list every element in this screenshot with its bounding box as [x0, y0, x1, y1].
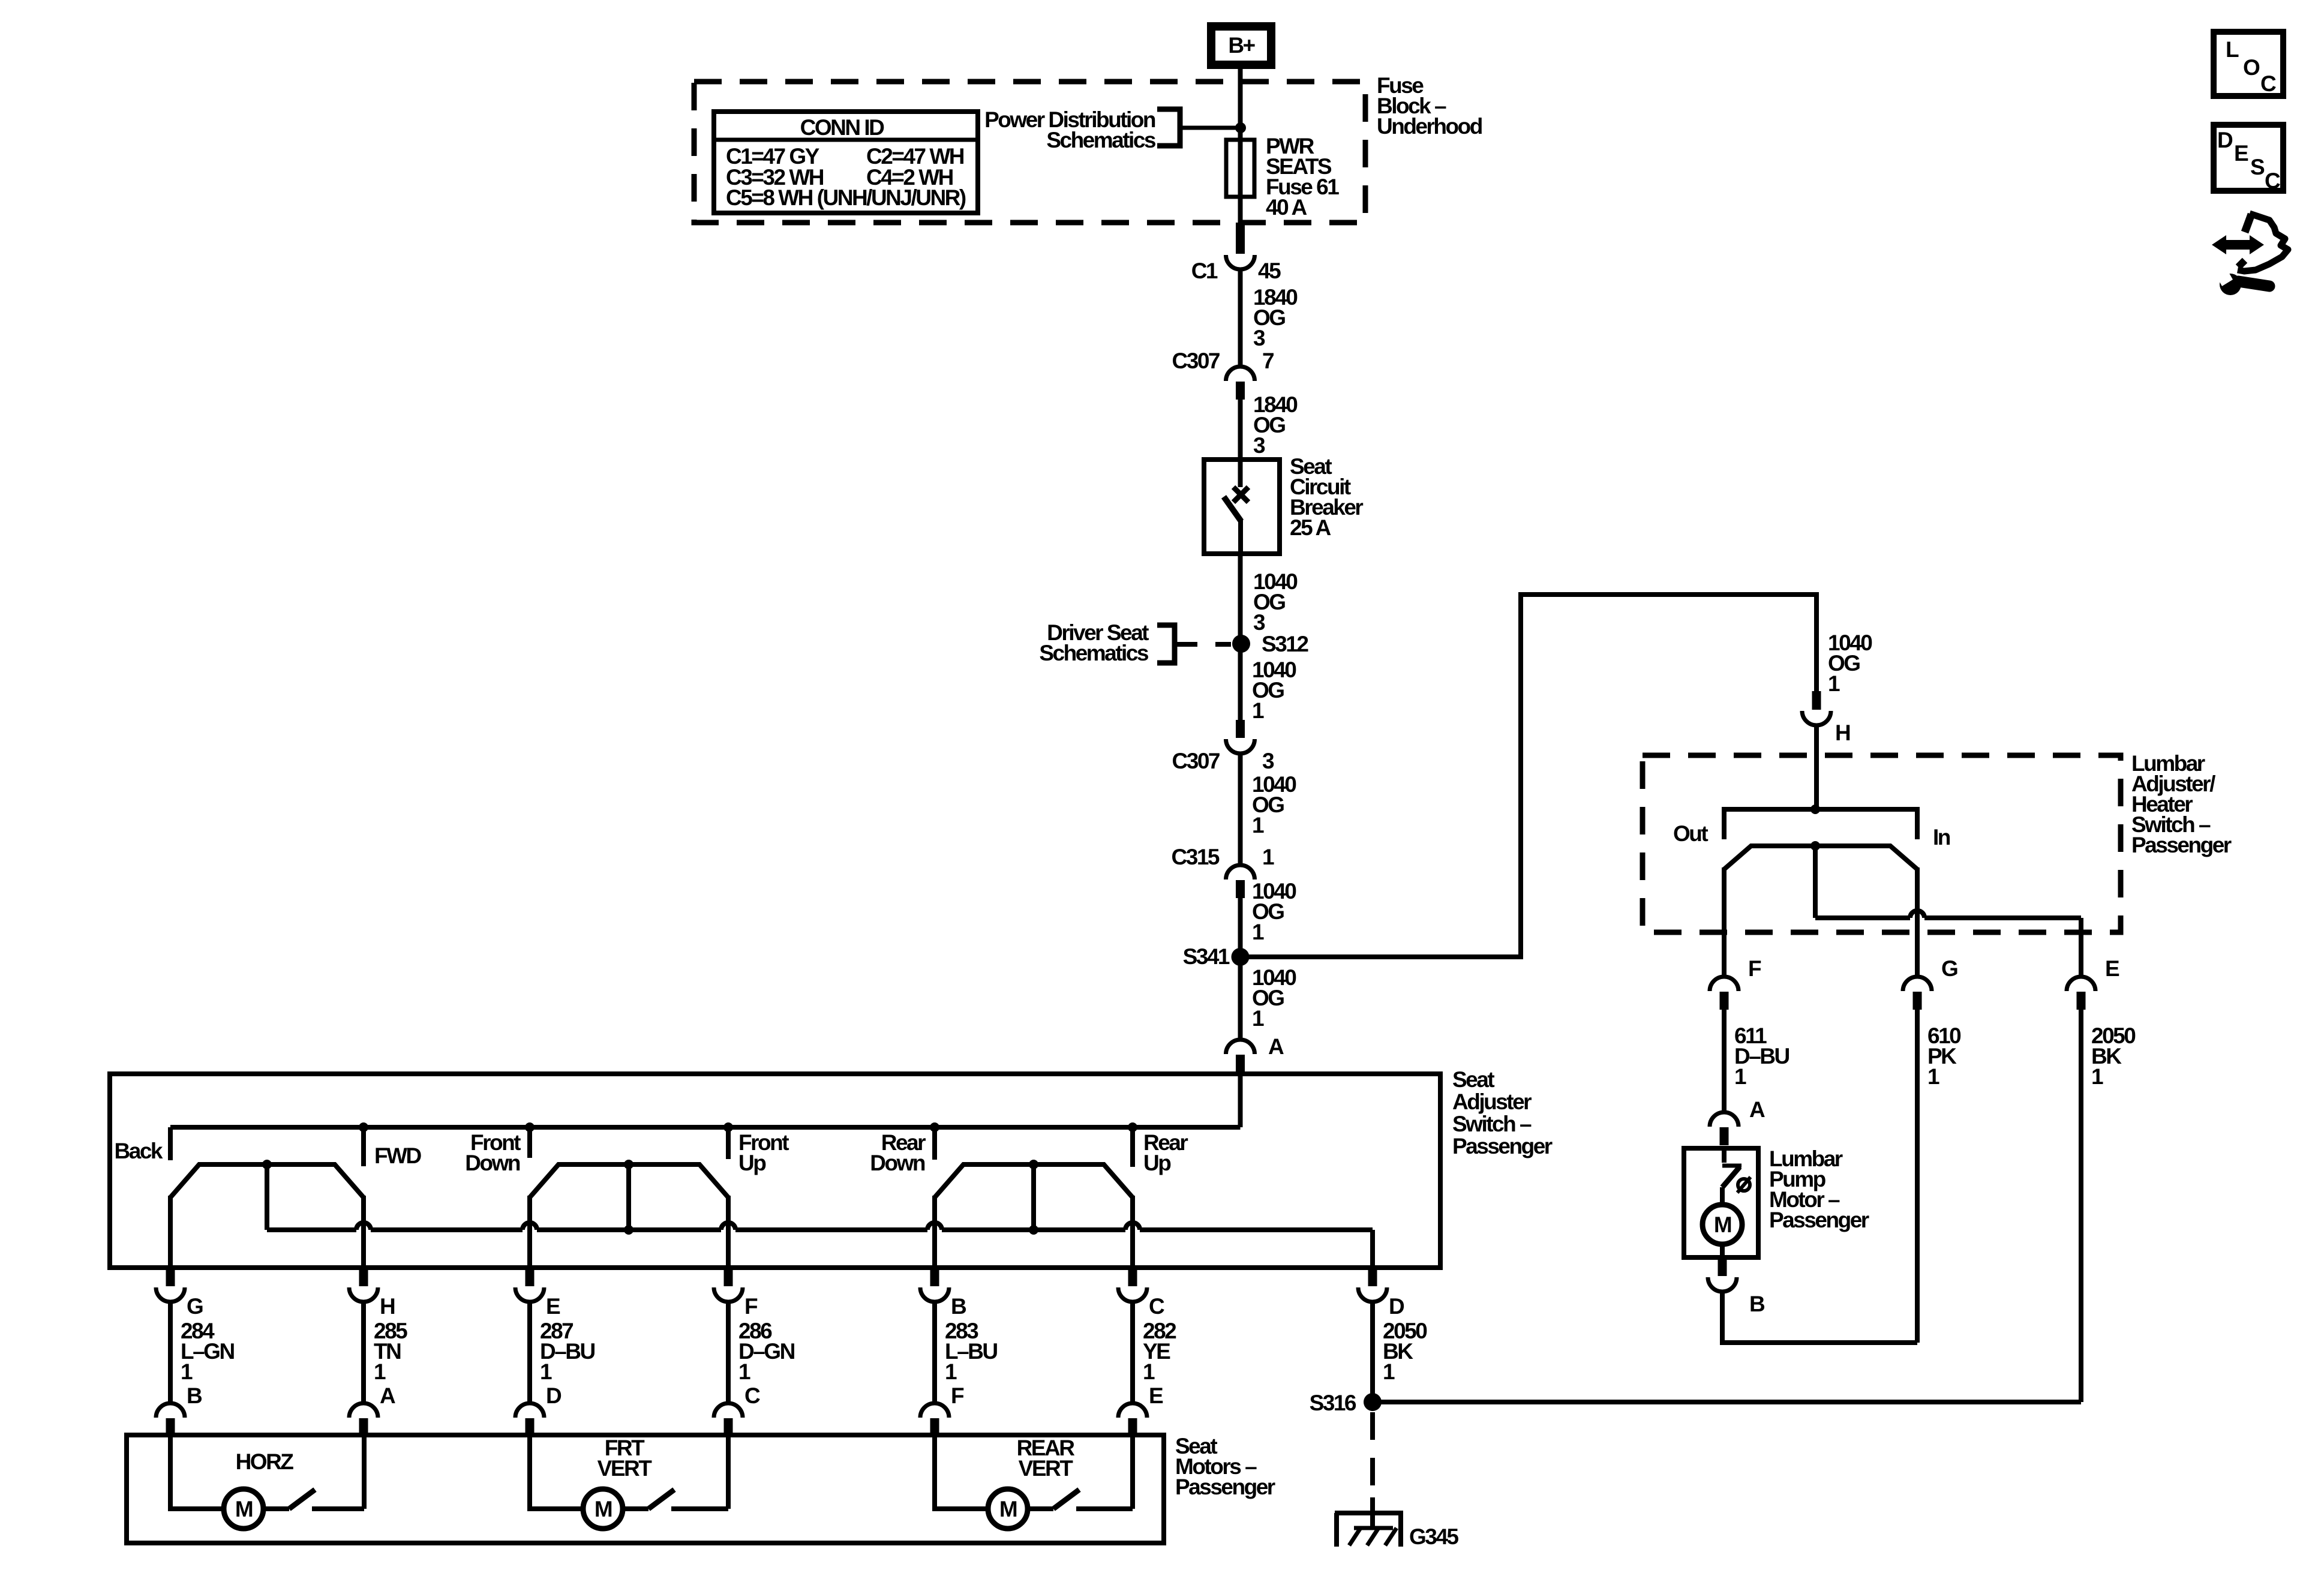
- splice S341: [1232, 948, 1250, 966]
- dashed lead to S312: [1177, 642, 1231, 647]
- connector pin B into seat motors: [156, 1403, 185, 1418]
- adjust icon seat outline: [2245, 214, 2251, 232]
- svg-text:C307: C307: [1172, 749, 1220, 773]
- bridge 2 left leg wire: [527, 1196, 532, 1268]
- svg-text:Up: Up: [738, 1151, 766, 1175]
- svg-text:Passenger: Passenger: [1452, 1134, 1553, 1158]
- terminal Front Up: [723, 1122, 733, 1132]
- svg-text:M: M: [594, 1497, 612, 1521]
- svg-text:F: F: [951, 1383, 964, 1408]
- svg-text:25 A: 25 A: [1290, 515, 1331, 540]
- connector C315 pin 1: [1226, 865, 1255, 879]
- terminal Front Down: [525, 1122, 535, 1132]
- wire 286 D–GN: [726, 1301, 731, 1404]
- svg-text:C1: C1: [1191, 259, 1218, 283]
- svg-text:3: 3: [1253, 610, 1265, 635]
- power feed B+ terminal: [1211, 26, 1271, 65]
- fuse block - underhood dashed box: [694, 82, 1365, 223]
- svg-text:Out: Out: [1673, 821, 1708, 846]
- svg-text:B: B: [951, 1294, 966, 1319]
- connector C307 pin 3: [1236, 720, 1245, 738]
- svg-text:D: D: [546, 1383, 562, 1408]
- svg-text:1: 1: [1252, 920, 1264, 944]
- lumbar adjuster/heater switch dashed box: [1643, 755, 2121, 932]
- svg-text:Down: Down: [870, 1151, 925, 1175]
- svg-text:G345: G345: [1409, 1524, 1458, 1549]
- lumbar tap wire to E: [1815, 915, 1910, 920]
- svg-text:M: M: [1714, 1212, 1731, 1237]
- lumbar feed node: [1810, 804, 1820, 814]
- wire 282 YE: [1130, 1301, 1135, 1404]
- connector H into lumbar switch: [1812, 691, 1821, 710]
- switch common bus to D: [267, 1227, 356, 1232]
- motor 3 switch: [1028, 1506, 1053, 1511]
- node junction at fuse top: [1235, 122, 1246, 133]
- svg-text:D: D: [2217, 128, 2233, 152]
- switch contact bridge 3: [935, 1164, 1133, 1197]
- svg-text:3: 3: [1262, 749, 1274, 773]
- connector E below lumbar switch: [2067, 977, 2095, 991]
- pump motor M: [1720, 1187, 1725, 1205]
- svg-text:B: B: [187, 1383, 202, 1408]
- motor 3 right feed: [1130, 1435, 1135, 1509]
- motor 1 switch: [263, 1506, 289, 1511]
- svg-text:C: C: [744, 1383, 760, 1408]
- svg-text:B: B: [1749, 1292, 1765, 1316]
- motor 2 left feed: [530, 1435, 583, 1509]
- lumbar pump motor - passenger box: [1684, 1148, 1758, 1257]
- svg-text:1: 1: [1828, 671, 1840, 696]
- wire S341 to A: [1238, 957, 1243, 1040]
- svg-text:1: 1: [1734, 1064, 1746, 1089]
- DESC icon box: [2214, 125, 2283, 191]
- adjust icon double arrow: [2212, 235, 2264, 254]
- bridge 1 left leg wire: [168, 1196, 173, 1268]
- svg-text:VERT: VERT: [1019, 1456, 1074, 1481]
- splice S312: [1232, 635, 1250, 653]
- terminal FWD: [359, 1122, 368, 1132]
- connector F below lumbar switch: [1710, 977, 1739, 991]
- lumbar In leg to G: [1915, 867, 1920, 978]
- svg-text:B+: B+: [1228, 33, 1255, 58]
- svg-text:O: O: [2243, 55, 2260, 80]
- svg-text:In: In: [1933, 825, 1950, 849]
- svg-text:A: A: [1268, 1034, 1284, 1059]
- svg-text:Up: Up: [1143, 1151, 1171, 1175]
- pump thermal switch: [1722, 1148, 1727, 1163]
- svg-text:L: L: [2226, 37, 2239, 62]
- wire 285 TN: [361, 1301, 366, 1404]
- svg-text:1: 1: [374, 1359, 386, 1384]
- connector pin B below switch: [930, 1268, 939, 1286]
- wire 2050 BK to S316: [1370, 1301, 1375, 1402]
- svg-text:CONN ID: CONN ID: [800, 115, 885, 140]
- bridge 3 center tap: [1029, 1160, 1038, 1169]
- connector C307 pin 7: [1226, 367, 1255, 381]
- wire 284 L–GN: [168, 1301, 173, 1404]
- switch contact bridge 2: [530, 1164, 728, 1197]
- svg-text:1: 1: [540, 1359, 552, 1384]
- svg-text:E: E: [1149, 1383, 1163, 1408]
- ground wire S316 to E leg: [1373, 1400, 2081, 1404]
- connector A into seat adjuster switch: [1226, 1040, 1255, 1054]
- svg-text:Down: Down: [465, 1151, 520, 1175]
- svg-text:H: H: [1835, 721, 1850, 745]
- breaker contact x-mark: [1233, 487, 1248, 502]
- svg-text:S341: S341: [1183, 944, 1230, 969]
- terminal Rear Down: [930, 1122, 939, 1132]
- svg-text:1: 1: [1383, 1359, 1395, 1384]
- wire junction into fuse: [1238, 65, 1243, 225]
- switch feed rail: [170, 1125, 1241, 1130]
- reference bracket: [1157, 625, 1175, 663]
- connector A into lumbar pump motor: [1710, 1112, 1739, 1127]
- svg-text:7: 7: [1262, 349, 1274, 373]
- connector C1 pin 45: [1236, 223, 1245, 254]
- svg-text:S312: S312: [1262, 632, 1308, 656]
- svg-text:1: 1: [1262, 845, 1274, 869]
- svg-text:S: S: [2250, 155, 2265, 179]
- motor 2 switch: [623, 1506, 648, 1511]
- connector pin F below switch: [724, 1268, 733, 1286]
- wire S312 to C307: [1238, 644, 1243, 720]
- bridge 3 right leg wire: [1130, 1196, 1135, 1268]
- connector pin C into seat motors: [714, 1403, 743, 1418]
- connector pin D into seat motors: [515, 1403, 544, 1418]
- svg-text:Underhood: Underhood: [1377, 114, 1482, 139]
- breaker blade: [1224, 497, 1241, 521]
- svg-text:Seat: Seat: [1452, 1067, 1494, 1092]
- svg-text:M: M: [235, 1497, 253, 1521]
- svg-text:Back: Back: [115, 1139, 163, 1163]
- lumbar Out leg to F: [1722, 867, 1727, 978]
- svg-text:Schematics: Schematics: [1046, 128, 1156, 152]
- bridge 2 center tap: [624, 1160, 633, 1169]
- connector pin H below switch: [359, 1268, 368, 1286]
- svg-text:Passenger: Passenger: [1175, 1475, 1275, 1499]
- motor 1 left feed: [170, 1435, 224, 1509]
- connector pin D below switch: [1368, 1268, 1377, 1286]
- svg-text:M: M: [999, 1497, 1017, 1521]
- svg-text:A: A: [1749, 1097, 1765, 1122]
- bridge 1 right leg wire: [361, 1196, 366, 1268]
- svg-text:FWD: FWD: [374, 1143, 422, 1168]
- wire breaker to S312: [1238, 554, 1243, 644]
- svg-text:1: 1: [1252, 1006, 1264, 1031]
- connector pin A into seat motors: [349, 1403, 378, 1418]
- svg-text:A: A: [380, 1383, 395, 1408]
- svg-text:1: 1: [1927, 1064, 1939, 1089]
- svg-text:1: 1: [1252, 698, 1264, 723]
- svg-text:D: D: [1389, 1294, 1404, 1319]
- svg-text:F: F: [744, 1294, 758, 1319]
- wire pump B to G leg: [1722, 1291, 1917, 1343]
- svg-text:1: 1: [181, 1359, 193, 1384]
- connector pin F into seat motors: [920, 1403, 949, 1418]
- connector pin E below switch: [526, 1268, 535, 1286]
- svg-text:C: C: [2265, 169, 2280, 193]
- svg-text:Passenger: Passenger: [1769, 1208, 1869, 1232]
- svg-text:1: 1: [945, 1359, 957, 1384]
- svg-text:40 A: 40 A: [1266, 195, 1307, 220]
- svg-text:G: G: [187, 1294, 203, 1319]
- svg-text:Passenger: Passenger: [2131, 833, 2232, 857]
- ground G345 symbol: [1335, 1511, 1403, 1515]
- svg-text:S316: S316: [1310, 1391, 1356, 1415]
- svg-text:E: E: [2105, 956, 2119, 981]
- svg-text:3: 3: [1253, 326, 1265, 350]
- connector pin E into seat motors: [1118, 1403, 1147, 1418]
- CONN ID table: [714, 112, 978, 213]
- svg-text:E: E: [546, 1294, 560, 1319]
- svg-text:C: C: [1149, 1294, 1164, 1319]
- connector G below lumbar switch: [1903, 977, 1932, 991]
- svg-text:1: 1: [2091, 1064, 2103, 1089]
- bridge 1 center tap: [262, 1160, 272, 1169]
- wire 287 D–BU: [527, 1301, 532, 1404]
- svg-text:C5=8 WH (UNH/UNJ/UNR): C5=8 WH (UNH/UNJ/UNR): [726, 185, 966, 210]
- adjust icon wrench: [2220, 274, 2241, 295]
- svg-text:1: 1: [738, 1359, 750, 1384]
- svg-text:C: C: [2260, 71, 2276, 96]
- wire 283 L–BU: [932, 1301, 937, 1404]
- wire C1 to C307: [1238, 269, 1243, 367]
- dashed wire S316 to ground: [1370, 1412, 1375, 1507]
- motor 1 right feed: [362, 1435, 367, 1509]
- svg-text:1: 1: [1252, 813, 1264, 837]
- wire A into rail: [1238, 1073, 1243, 1127]
- splice S316: [1364, 1393, 1382, 1411]
- svg-text:C307: C307: [1172, 349, 1220, 373]
- svg-text:1: 1: [1143, 1359, 1155, 1384]
- svg-text:Switch –: Switch –: [1452, 1112, 1532, 1136]
- bridge 3 left leg wire: [932, 1196, 937, 1268]
- fuse PWR SEATS Fuse 61 40 A: [1226, 140, 1254, 197]
- wire C307 to C315: [1238, 754, 1243, 865]
- reference bracket: [1157, 109, 1180, 146]
- svg-text:Adjuster: Adjuster: [1452, 1089, 1532, 1114]
- svg-text:H: H: [380, 1294, 395, 1319]
- svg-text:3: 3: [1253, 433, 1265, 458]
- svg-text:G: G: [1941, 956, 1957, 981]
- svg-text:45: 45: [1258, 259, 1281, 283]
- LOC icon box: [2214, 32, 2283, 96]
- motor 2 right feed: [726, 1435, 731, 1509]
- wire S341 branch to lumbar switch: [1241, 595, 1817, 957]
- wire B+ to fuse block: [1238, 65, 1243, 84]
- lumbar contact bar: [1724, 809, 1917, 839]
- svg-text:Schematics: Schematics: [1039, 641, 1149, 665]
- terminal Rear Up: [1128, 1122, 1137, 1132]
- svg-text:E: E: [2234, 141, 2248, 166]
- lumbar bridge tap: [1810, 841, 1820, 851]
- motor 3 M: [988, 1489, 1028, 1529]
- motor 2 M: [583, 1489, 623, 1529]
- seat motors - passenger box: [127, 1435, 1164, 1543]
- connector B below pump motor: [1718, 1257, 1727, 1276]
- switch contact bridge 1: [170, 1164, 364, 1197]
- seat circuit breaker 25A: [1204, 460, 1280, 554]
- terminal Back: [168, 1127, 173, 1160]
- svg-text:HORZ: HORZ: [236, 1449, 294, 1474]
- lumbar bridge: [1724, 846, 1917, 869]
- wire bracket to trunk: [1180, 126, 1236, 130]
- connector pin C below switch: [1128, 1268, 1137, 1286]
- svg-text:C315: C315: [1172, 845, 1220, 869]
- connector pin G below switch: [166, 1268, 175, 1286]
- motor 1 M: [224, 1489, 263, 1529]
- seat adjuster switch - passenger box: [110, 1074, 1440, 1268]
- svg-text:F: F: [1748, 956, 1761, 981]
- bridge 2 right leg wire: [726, 1196, 731, 1268]
- wire C315 to S341: [1238, 898, 1243, 957]
- wire C307 to circuit breaker: [1238, 400, 1243, 462]
- svg-text:VERT: VERT: [597, 1456, 653, 1481]
- motor 3 left feed: [935, 1435, 988, 1509]
